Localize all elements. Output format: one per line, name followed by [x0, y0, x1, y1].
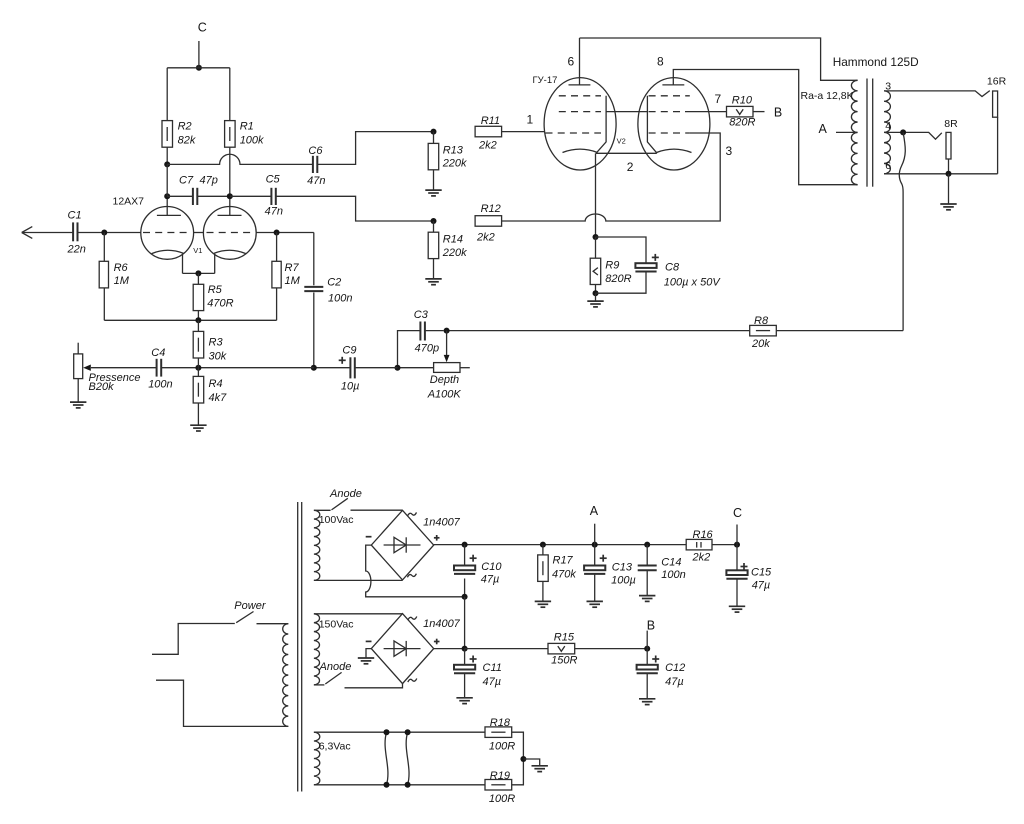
svg-text:3: 3: [726, 144, 733, 158]
capacitor C14: [646, 545, 648, 566]
resistor R13: [433, 132, 435, 144]
svg-text:C: C: [733, 506, 742, 520]
mains input stub lower: [156, 680, 288, 726]
ground C14: [639, 595, 655, 597]
wire rail2 to R15: [465, 648, 548, 650]
bridge rectifier D2: [371, 614, 433, 684]
svg-text:1M: 1M: [114, 275, 130, 287]
16R terminal: [993, 91, 998, 117]
node R7 top: [274, 230, 280, 236]
resistor R9: [595, 237, 597, 258]
svg-text:R1: R1: [240, 121, 254, 133]
wire R16 to C node: [712, 544, 737, 546]
wire to bridge2 ac bottom: [345, 684, 403, 688]
svg-text:C3: C3: [414, 309, 429, 321]
8R terminal: [946, 132, 951, 159]
svg-text:820R: 820R: [605, 273, 631, 285]
tap 4 wire with selector kink: [884, 132, 942, 139]
resistor R17: [540, 542, 546, 548]
node heater b1: [384, 782, 390, 788]
svg-text:A: A: [590, 504, 599, 518]
resistor R16: [686, 539, 712, 550]
svg-text:16R: 16R: [987, 75, 1007, 87]
rail 6 wire: [884, 173, 998, 175]
svg-text:Anode: Anode: [329, 488, 362, 500]
resistor R8: [750, 325, 777, 336]
V1 right grid dashed: [207, 232, 255, 234]
svg-text:150Vac: 150Vac: [319, 618, 354, 630]
svg-text:R16: R16: [693, 529, 714, 541]
node C11 top: [462, 646, 468, 652]
svg-text:V2: V2: [617, 137, 626, 146]
node heater t1: [384, 729, 390, 735]
V1 left anode: [157, 214, 181, 216]
twisted pair wavy 1: [385, 732, 388, 785]
node heater b2: [405, 782, 411, 788]
svg-text:10µ: 10µ: [341, 381, 360, 393]
ground R9: [595, 293, 597, 301]
resistor R18: [485, 727, 512, 738]
node rail 6: [946, 171, 952, 177]
svg-text:100R: 100R: [489, 740, 515, 752]
wire input to C1: [22, 232, 73, 234]
svg-text:R5: R5: [208, 284, 223, 296]
svg-text:C7: C7: [179, 175, 194, 187]
svg-text:C1: C1: [68, 210, 82, 222]
node R2 bottom: [164, 161, 170, 167]
resistor R11: [475, 126, 502, 137]
tube V1 12AX7 right triode: [203, 207, 256, 260]
svg-text:C10: C10: [481, 561, 502, 573]
winding 6,3Vac: [314, 732, 320, 785]
svg-text:4k7: 4k7: [209, 392, 228, 404]
svg-text:B: B: [647, 618, 655, 632]
svg-text:150R: 150R: [551, 655, 577, 667]
svg-text:100n: 100n: [148, 378, 172, 390]
svg-text:R9: R9: [605, 260, 619, 272]
ground C15: [729, 605, 745, 607]
svg-text:47µ: 47µ: [665, 676, 684, 688]
node C3 right: [444, 328, 450, 334]
svg-text:C6: C6: [308, 145, 323, 157]
svg-text:6,3Vac: 6,3Vac: [319, 740, 351, 752]
wire rail to R8: [776, 330, 903, 332]
svg-text:6: 6: [568, 55, 575, 69]
svg-text:47µ: 47µ: [752, 579, 771, 591]
node C rail: [734, 542, 740, 548]
wiper arrow to Depth: [446, 331, 448, 357]
ground Pressence: [77, 379, 79, 402]
ground R4: [190, 424, 206, 426]
wire bridge1 minus rail with hop: [366, 545, 465, 597]
ground R14: [425, 278, 441, 280]
resistor R6: [103, 233, 105, 262]
svg-text:6: 6: [885, 160, 891, 172]
resistor R1: [229, 68, 231, 121]
tap 3 wire with selector kink: [884, 91, 990, 97]
svg-text:C: C: [198, 20, 207, 34]
node R9 bottom: [593, 290, 599, 296]
wire C3 to cathode row: [398, 331, 421, 368]
V2 right cathode: [657, 149, 692, 152]
wire C1 to grid: [78, 232, 141, 234]
node R13 top: [431, 129, 437, 135]
node A stub: [594, 524, 596, 545]
node C stub: [736, 525, 738, 545]
wire C supply header: [167, 67, 230, 69]
potentiometer Depth A100K: [434, 363, 460, 373]
wire R10 to B: [753, 111, 765, 113]
svg-text:8: 8: [657, 55, 664, 69]
capacitor C6: [312, 156, 314, 173]
svg-text:R10: R10: [732, 95, 753, 107]
wire C6 to R11 row: [317, 132, 433, 165]
resistor R19: [485, 780, 512, 791]
wire C4 to Pressence wiper: [91, 367, 157, 369]
capacitor C3: [419, 322, 421, 341]
svg-text:C12: C12: [665, 662, 685, 674]
wire screen to R10: [685, 111, 727, 113]
transformer T2 core: [866, 79, 868, 187]
resistor R14: [433, 221, 435, 232]
wire heater bottom rail: [314, 784, 485, 786]
svg-text:C5: C5: [266, 174, 281, 186]
svg-text:100µ: 100µ: [611, 575, 636, 587]
svg-text:R15: R15: [554, 632, 575, 644]
svg-text:100n: 100n: [328, 293, 352, 305]
V2 left anode: [569, 84, 591, 86]
wire to bridge1 ac top: [351, 509, 403, 511]
svg-text:1M: 1M: [285, 275, 301, 287]
wire C10 bottom to rail2: [464, 597, 466, 649]
ground C11: [456, 697, 472, 699]
capacitor C8: [596, 237, 647, 263]
svg-text:R8: R8: [754, 315, 769, 327]
svg-text:12AX7: 12AX7: [113, 196, 145, 208]
node C10 bottom: [462, 594, 468, 600]
wire pin6 to primary top: [580, 38, 858, 80]
wire 150Vac top lead to bridge2: [314, 613, 403, 615]
resistor R12: [475, 216, 502, 227]
svg-text:1: 1: [527, 113, 534, 127]
node R3 bottom: [195, 365, 201, 371]
svg-text:R4: R4: [209, 378, 223, 390]
V1 right cathode: [214, 250, 246, 253]
node B rail: [644, 646, 650, 652]
svg-text:C15: C15: [751, 567, 772, 579]
svg-text:ГУ-17: ГУ-17: [533, 75, 558, 86]
pin 8 lead: [673, 70, 857, 185]
svg-text:470R: 470R: [207, 298, 233, 310]
svg-text:Power: Power: [234, 600, 267, 612]
node C10 top: [462, 542, 468, 548]
node A rail: [592, 542, 598, 548]
node C9 right: [395, 365, 401, 371]
resistor R3: [197, 320, 199, 331]
wire 100Vac bottom lead: [314, 579, 403, 581]
switch Anode lower: [325, 672, 341, 684]
tube V2 GU-17 left section: [544, 78, 616, 170]
svg-text:Anode: Anode: [319, 661, 352, 673]
capacitor C15: [736, 545, 738, 571]
ground R17: [535, 600, 551, 602]
switch Anode upper: [332, 498, 348, 510]
wire pin3 solid segment: [689, 132, 710, 134]
V2 left grids dashed: [559, 95, 601, 97]
capacitor C4: [156, 359, 158, 377]
transformer T2 secondary winding: [884, 91, 890, 174]
svg-text:100Vac: 100Vac: [319, 514, 354, 526]
svg-text:3: 3: [885, 80, 891, 92]
wire R11 to pin1: [502, 131, 545, 133]
svg-text:100µ x 50V: 100µ x 50V: [664, 277, 722, 289]
svg-text:C2: C2: [327, 277, 341, 289]
svg-text:47p: 47p: [200, 175, 218, 187]
resistor R5: [197, 273, 199, 284]
svg-text:A100K: A100K: [427, 389, 462, 401]
resistor R2: [166, 68, 168, 121]
svg-text:8R: 8R: [944, 118, 958, 130]
node R14 top: [431, 218, 437, 224]
node heater t2: [405, 729, 411, 735]
node R5 bottom: [195, 317, 201, 323]
svg-text:220k: 220k: [442, 247, 467, 259]
svg-text:C14: C14: [661, 556, 681, 568]
V1 right anode: [218, 214, 242, 216]
svg-text:R14: R14: [443, 234, 463, 246]
capacitor C13: [594, 545, 596, 566]
transformer T1 core: [297, 502, 299, 792]
node B stub: [646, 631, 648, 649]
node R6 top: [101, 230, 107, 236]
V2 right beam bar: [647, 96, 657, 154]
capacitor C11: [464, 649, 466, 665]
wire anode right to node: [256, 232, 314, 234]
svg-text:C9: C9: [342, 344, 356, 356]
svg-text:R7: R7: [285, 262, 300, 274]
V2 right anode: [662, 84, 684, 86]
svg-text:B20k: B20k: [89, 381, 115, 393]
svg-text:100R: 100R: [489, 793, 515, 805]
V1 left grid dashed: [143, 232, 191, 234]
svg-text:A: A: [819, 122, 828, 136]
svg-text:2: 2: [627, 160, 634, 174]
node C2 bottom: [311, 365, 317, 371]
winding 100Vac: [314, 510, 320, 580]
svg-text:470p: 470p: [415, 343, 439, 355]
svg-text:2k2: 2k2: [478, 140, 497, 152]
svg-text:2k2: 2k2: [692, 552, 711, 564]
transformer T2 primary winding: [851, 80, 857, 184]
svg-text:C13: C13: [612, 562, 633, 574]
input arrow: [22, 227, 33, 239]
svg-text:R13: R13: [443, 145, 464, 157]
switch Power: [236, 612, 253, 623]
svg-text:Depth: Depth: [430, 374, 459, 386]
capacitor C2: [313, 233, 315, 286]
svg-text:V1: V1: [193, 246, 202, 255]
winding 150Vac: [314, 614, 320, 685]
wire switch to primary: [257, 623, 289, 625]
svg-text:B: B: [774, 106, 782, 120]
node cathodes: [195, 270, 201, 276]
svg-text:100n: 100n: [661, 569, 685, 581]
feedback wire from tap 4: [899, 132, 905, 330]
resistor R4: [197, 368, 199, 377]
V1 left cathode: [152, 250, 184, 253]
svg-text:47µ: 47µ: [481, 574, 500, 586]
ground bridge2 minus: [366, 649, 371, 658]
capacitor C12: [646, 649, 648, 665]
svg-text:22n: 22n: [67, 244, 86, 256]
ground 8R: [948, 174, 950, 204]
wire C5 to R12 row: [276, 196, 434, 221]
svg-text:30k: 30k: [209, 351, 227, 363]
grid return wire: [104, 319, 276, 321]
svg-text:82k: 82k: [178, 135, 196, 147]
svg-text:Ra-a 12,8K: Ra-a 12,8K: [801, 90, 854, 102]
wire R12 to pin3 with hop over cathode: [502, 133, 721, 221]
wire 8R to rail 6: [948, 159, 950, 174]
V2 left cathode: [563, 149, 598, 152]
capacitor C10: [464, 545, 466, 566]
svg-text:R3: R3: [209, 337, 224, 349]
svg-text:47µ: 47µ: [483, 676, 502, 688]
V2 right grids dashed: [649, 95, 690, 97]
svg-text:C4: C4: [151, 347, 165, 359]
svg-text:820R: 820R: [729, 116, 755, 128]
node tap 4: [900, 129, 906, 135]
twisted pair wavy 2: [406, 732, 409, 785]
potentiometer Pressence B20k: [74, 354, 83, 379]
wire 100Vac top lead: [314, 509, 331, 511]
node R9 top: [593, 234, 599, 240]
svg-text:R2: R2: [178, 121, 192, 133]
tube V1 12AX7 left triode: [141, 207, 194, 260]
wire 16R to rail 6: [997, 117, 999, 174]
wire C6 row with hop over R1: [167, 154, 313, 164]
svg-text:R6: R6: [114, 262, 129, 274]
cathode link pin2: [596, 152, 657, 154]
resistor R10: [727, 106, 754, 117]
svg-text:C8: C8: [665, 262, 680, 274]
wire center tap A: [836, 131, 858, 133]
wire cathode row: [161, 367, 314, 369]
svg-text:R17: R17: [553, 555, 574, 567]
svg-text:1n4007: 1n4007: [423, 516, 461, 528]
bridge rectifier D1: [371, 510, 433, 580]
ground R13: [425, 189, 441, 191]
capacitor C7: [167, 195, 193, 197]
wire bridge2 plus to rail: [434, 648, 465, 650]
wire 150Vac bottom lead: [314, 684, 325, 686]
svg-text:220k: 220k: [442, 158, 467, 170]
svg-text:R19: R19: [490, 770, 510, 782]
node C supply: [196, 65, 202, 71]
V2 left beam bar: [596, 96, 606, 154]
screen link wire: [606, 111, 647, 113]
svg-text:470k: 470k: [552, 569, 576, 581]
node C14 top: [644, 542, 650, 548]
svg-text:20k: 20k: [751, 338, 770, 350]
svg-text:C11: C11: [483, 662, 502, 674]
svg-text:2k2: 2k2: [476, 232, 495, 244]
svg-text:7: 7: [715, 92, 722, 106]
capacitor C9: [355, 367, 398, 369]
wire R18 R19 join: [512, 732, 524, 785]
svg-text:47n: 47n: [307, 175, 325, 187]
wire B+ rail 1: [434, 544, 687, 546]
node C7 right: [227, 193, 233, 199]
svg-text:4: 4: [885, 120, 891, 132]
ground C12: [639, 698, 655, 700]
capacitor C1: [72, 222, 74, 241]
cathode drop wire: [595, 153, 597, 237]
wire R8 to C3 node: [447, 330, 750, 332]
svg-text:Hammond 125D: Hammond 125D: [833, 55, 919, 69]
wire heater top rail: [314, 731, 485, 733]
wire R15 to B node: [575, 648, 648, 650]
svg-text:1n4007: 1n4007: [423, 618, 461, 630]
node heater mid: [520, 756, 526, 762]
wire C9 left: [314, 367, 351, 369]
cathode join wire: [183, 272, 215, 274]
pin 6 lead: [579, 38, 581, 85]
svg-text:R11: R11: [481, 115, 500, 127]
node C7 left: [164, 193, 170, 199]
svg-text:R12: R12: [481, 203, 501, 215]
wire between triodes: [194, 232, 204, 234]
resistor R7: [276, 233, 278, 262]
svg-text:47n: 47n: [265, 206, 283, 218]
mains input stub upper: [152, 624, 235, 655]
tube V2 GU-17 right section: [638, 78, 710, 170]
svg-text:100k: 100k: [240, 135, 264, 147]
capacitor C5: [230, 195, 272, 197]
transformer T1 primary winding: [283, 624, 289, 727]
svg-text:R18: R18: [490, 717, 511, 729]
ground heater: [523, 759, 539, 766]
resistor R15: [548, 643, 575, 654]
ground C13: [587, 600, 603, 602]
node C stub: [198, 41, 200, 68]
